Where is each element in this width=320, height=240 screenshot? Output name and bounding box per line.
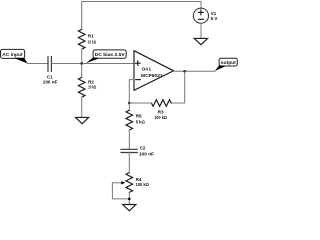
wire feedback vertical from output rail xyxy=(171,71,185,103)
resistor R3 xyxy=(151,100,171,120)
ground (below R2) xyxy=(76,117,89,123)
svg-text:100 kΩ: 100 kΩ xyxy=(154,115,167,120)
svg-text:5 kΩ: 5 kΩ xyxy=(136,119,145,124)
svg-text:100 nF: 100 nF xyxy=(43,79,58,84)
wire R2 to ground xyxy=(81,97,83,117)
wire R3 to feedback node xyxy=(129,102,151,104)
node junction dot (R4 bottom) xyxy=(128,198,131,201)
wire top rail from R1 top to V1 xyxy=(82,2,201,30)
wire C1 to op-amp non-inverting input xyxy=(51,63,134,65)
net flag AC input xyxy=(1,49,28,63)
svg-text:OA1: OA1 xyxy=(142,66,152,71)
svg-text:MCP6021: MCP6021 xyxy=(141,73,163,78)
svg-text:R1: R1 xyxy=(88,34,94,39)
svg-text:10 kΩ: 10 kΩ xyxy=(88,40,96,45)
resistor R1 xyxy=(78,29,96,49)
svg-text:output: output xyxy=(221,60,237,66)
svg-text:R5: R5 xyxy=(136,114,142,119)
wire op-amp output xyxy=(174,70,215,72)
svg-text:5 V: 5 V xyxy=(211,16,219,21)
svg-text:100 nF: 100 nF xyxy=(139,151,154,156)
resistor R5 xyxy=(126,103,145,130)
ground (below R4) xyxy=(123,205,136,211)
svg-text:C2: C2 xyxy=(140,145,146,150)
wire R4 bottom to ground xyxy=(128,192,130,204)
resistor R2 xyxy=(78,64,96,98)
potentiometer R4 xyxy=(112,173,149,199)
ground (below V1) xyxy=(194,38,207,44)
svg-text:AC input: AC input xyxy=(2,52,23,58)
wire V1 to ground xyxy=(200,23,202,38)
wire inverting input to feedback node xyxy=(129,80,134,103)
capacitor C1 xyxy=(43,57,58,85)
svg-text:DC bias 2.5V: DC bias 2.5V xyxy=(95,52,126,58)
net flag output xyxy=(215,58,238,71)
wire C2 to R4 xyxy=(128,153,130,173)
wire R1 bottom to input-rail junction xyxy=(81,49,83,63)
node junction dot (R1/R2/input rail) xyxy=(80,62,83,65)
svg-text:R4: R4 xyxy=(136,177,142,182)
svg-text:100 kΩ: 100 kΩ xyxy=(136,182,149,187)
node junction dot (output) xyxy=(183,70,186,73)
svg-text:10 kΩ: 10 kΩ xyxy=(88,84,96,89)
capacitor C2 xyxy=(121,145,154,156)
node junction dot (feedback node) xyxy=(128,102,131,105)
wire AC input to C1 xyxy=(28,63,48,65)
voltage source V1 xyxy=(193,8,218,23)
op-amp OA1 MCP6021 xyxy=(134,51,174,91)
net flag DC bias 2.5V xyxy=(86,50,126,63)
wire R5 to C2 xyxy=(128,130,130,149)
